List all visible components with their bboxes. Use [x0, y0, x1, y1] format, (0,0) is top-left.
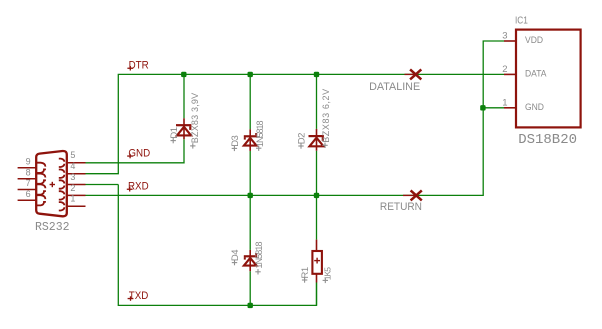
svg-text:DATALINE: DATALINE [369, 81, 420, 93]
svg-text:1N5818: 1N5818 [255, 120, 265, 147]
svg-text:2: 2 [502, 64, 507, 75]
svg-text:1N5818: 1N5818 [254, 241, 264, 268]
svg-text:D3: D3 [230, 135, 241, 146]
svg-text:VDD: VDD [525, 35, 543, 46]
svg-text:IC1: IC1 [515, 15, 528, 26]
svg-text:2: 2 [70, 183, 75, 193]
svg-text:1K5: 1K5 [322, 267, 332, 280]
svg-text:6: 6 [26, 189, 31, 199]
svg-text:9: 9 [26, 157, 31, 167]
svg-text:DS18B20: DS18B20 [518, 132, 577, 148]
svg-text:DTR: DTR [129, 60, 150, 72]
svg-text:D2: D2 [297, 133, 308, 144]
svg-text:GND: GND [128, 148, 150, 160]
svg-text:3: 3 [502, 31, 507, 42]
svg-text:GND: GND [525, 101, 544, 112]
svg-text:D1: D1 [169, 127, 180, 138]
svg-text:1: 1 [70, 194, 75, 204]
svg-text:RS232: RS232 [35, 221, 70, 234]
svg-text:7: 7 [26, 178, 31, 188]
svg-text:DATA: DATA [525, 68, 546, 79]
svg-text:5: 5 [70, 150, 75, 160]
svg-text:RXD: RXD [128, 181, 149, 193]
svg-text:1: 1 [502, 98, 507, 109]
svg-text:R1: R1 [300, 267, 311, 278]
svg-text:TXD: TXD [129, 290, 149, 302]
svg-text:RETURN: RETURN [380, 201, 422, 213]
svg-text:BZX83 3,9V: BZX83 3,9V [190, 93, 200, 144]
svg-text:8: 8 [26, 167, 31, 177]
svg-text:3: 3 [70, 172, 75, 182]
svg-text:BZX83 6,2V: BZX83 6,2V [321, 88, 331, 143]
svg-text:D4: D4 [230, 250, 241, 261]
svg-text:4: 4 [70, 161, 75, 171]
